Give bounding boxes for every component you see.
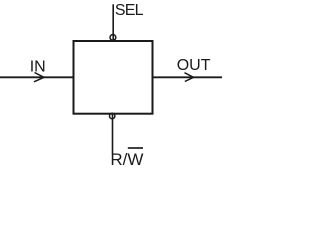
bubble R/W (active-low write)	[110, 113, 115, 118]
wire IN	[0, 76, 73, 78]
svg-text:OUT: OUT	[177, 57, 211, 74]
svg-text:IN: IN	[30, 58, 46, 75]
wire OUT	[153, 76, 222, 78]
block U1 (mux/buffer box)	[74, 41, 153, 114]
arrowhead IN	[34, 73, 44, 82]
wire R/W	[112, 114, 114, 154]
overline over W	[128, 147, 143, 149]
arrowhead OUT	[185, 73, 194, 82]
svg-text:R/W: R/W	[110, 150, 143, 167]
wire SEL	[112, 4, 114, 40]
bubble SEL (active-low)	[110, 35, 116, 41]
svg-text:SEL: SEL	[115, 2, 144, 19]
